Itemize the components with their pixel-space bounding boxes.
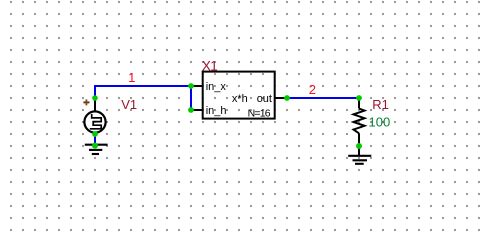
junction node in_h [188, 107, 194, 113]
ground below V1 [85, 145, 108, 154]
svg-text:in_x: in_x [206, 81, 227, 93]
svg-text:1: 1 [128, 70, 135, 85]
resistor R1 [354, 98, 365, 146]
V1 plus sign [83, 99, 89, 105]
convolution block X1 box [191, 72, 287, 119]
svg-text:100: 100 [369, 115, 391, 130]
ground below R1 [348, 146, 371, 164]
svg-text:x*h: x*h [232, 93, 248, 105]
junction node V1 top [92, 95, 98, 101]
junction node in_x [188, 83, 194, 89]
wire net 2 (X1 out to R1) [287, 97, 359, 99]
svg-text:N=16: N=16 [248, 108, 271, 120]
junction node V1 bottom [92, 131, 98, 137]
svg-text:2: 2 [309, 82, 316, 97]
svg-text:out: out [257, 93, 272, 105]
wire net 1 (V1 top to X1 in_x) [95, 86, 191, 98]
svg-text:R1: R1 [372, 97, 389, 112]
svg-text:X1: X1 [202, 58, 217, 73]
svg-text:V1: V1 [121, 97, 137, 112]
junction node out [284, 95, 290, 101]
junction node V1 ground [92, 143, 98, 149]
wire junction X1 inputs (in_x to in_h tie) [190, 86, 192, 110]
voltage source V1 [84, 98, 105, 133]
svg-text:in_h: in_h [206, 105, 227, 117]
wire V1 bottom to ground [94, 134, 96, 146]
junction node R1 top [356, 95, 362, 101]
junction node R1 bottom [356, 143, 362, 149]
